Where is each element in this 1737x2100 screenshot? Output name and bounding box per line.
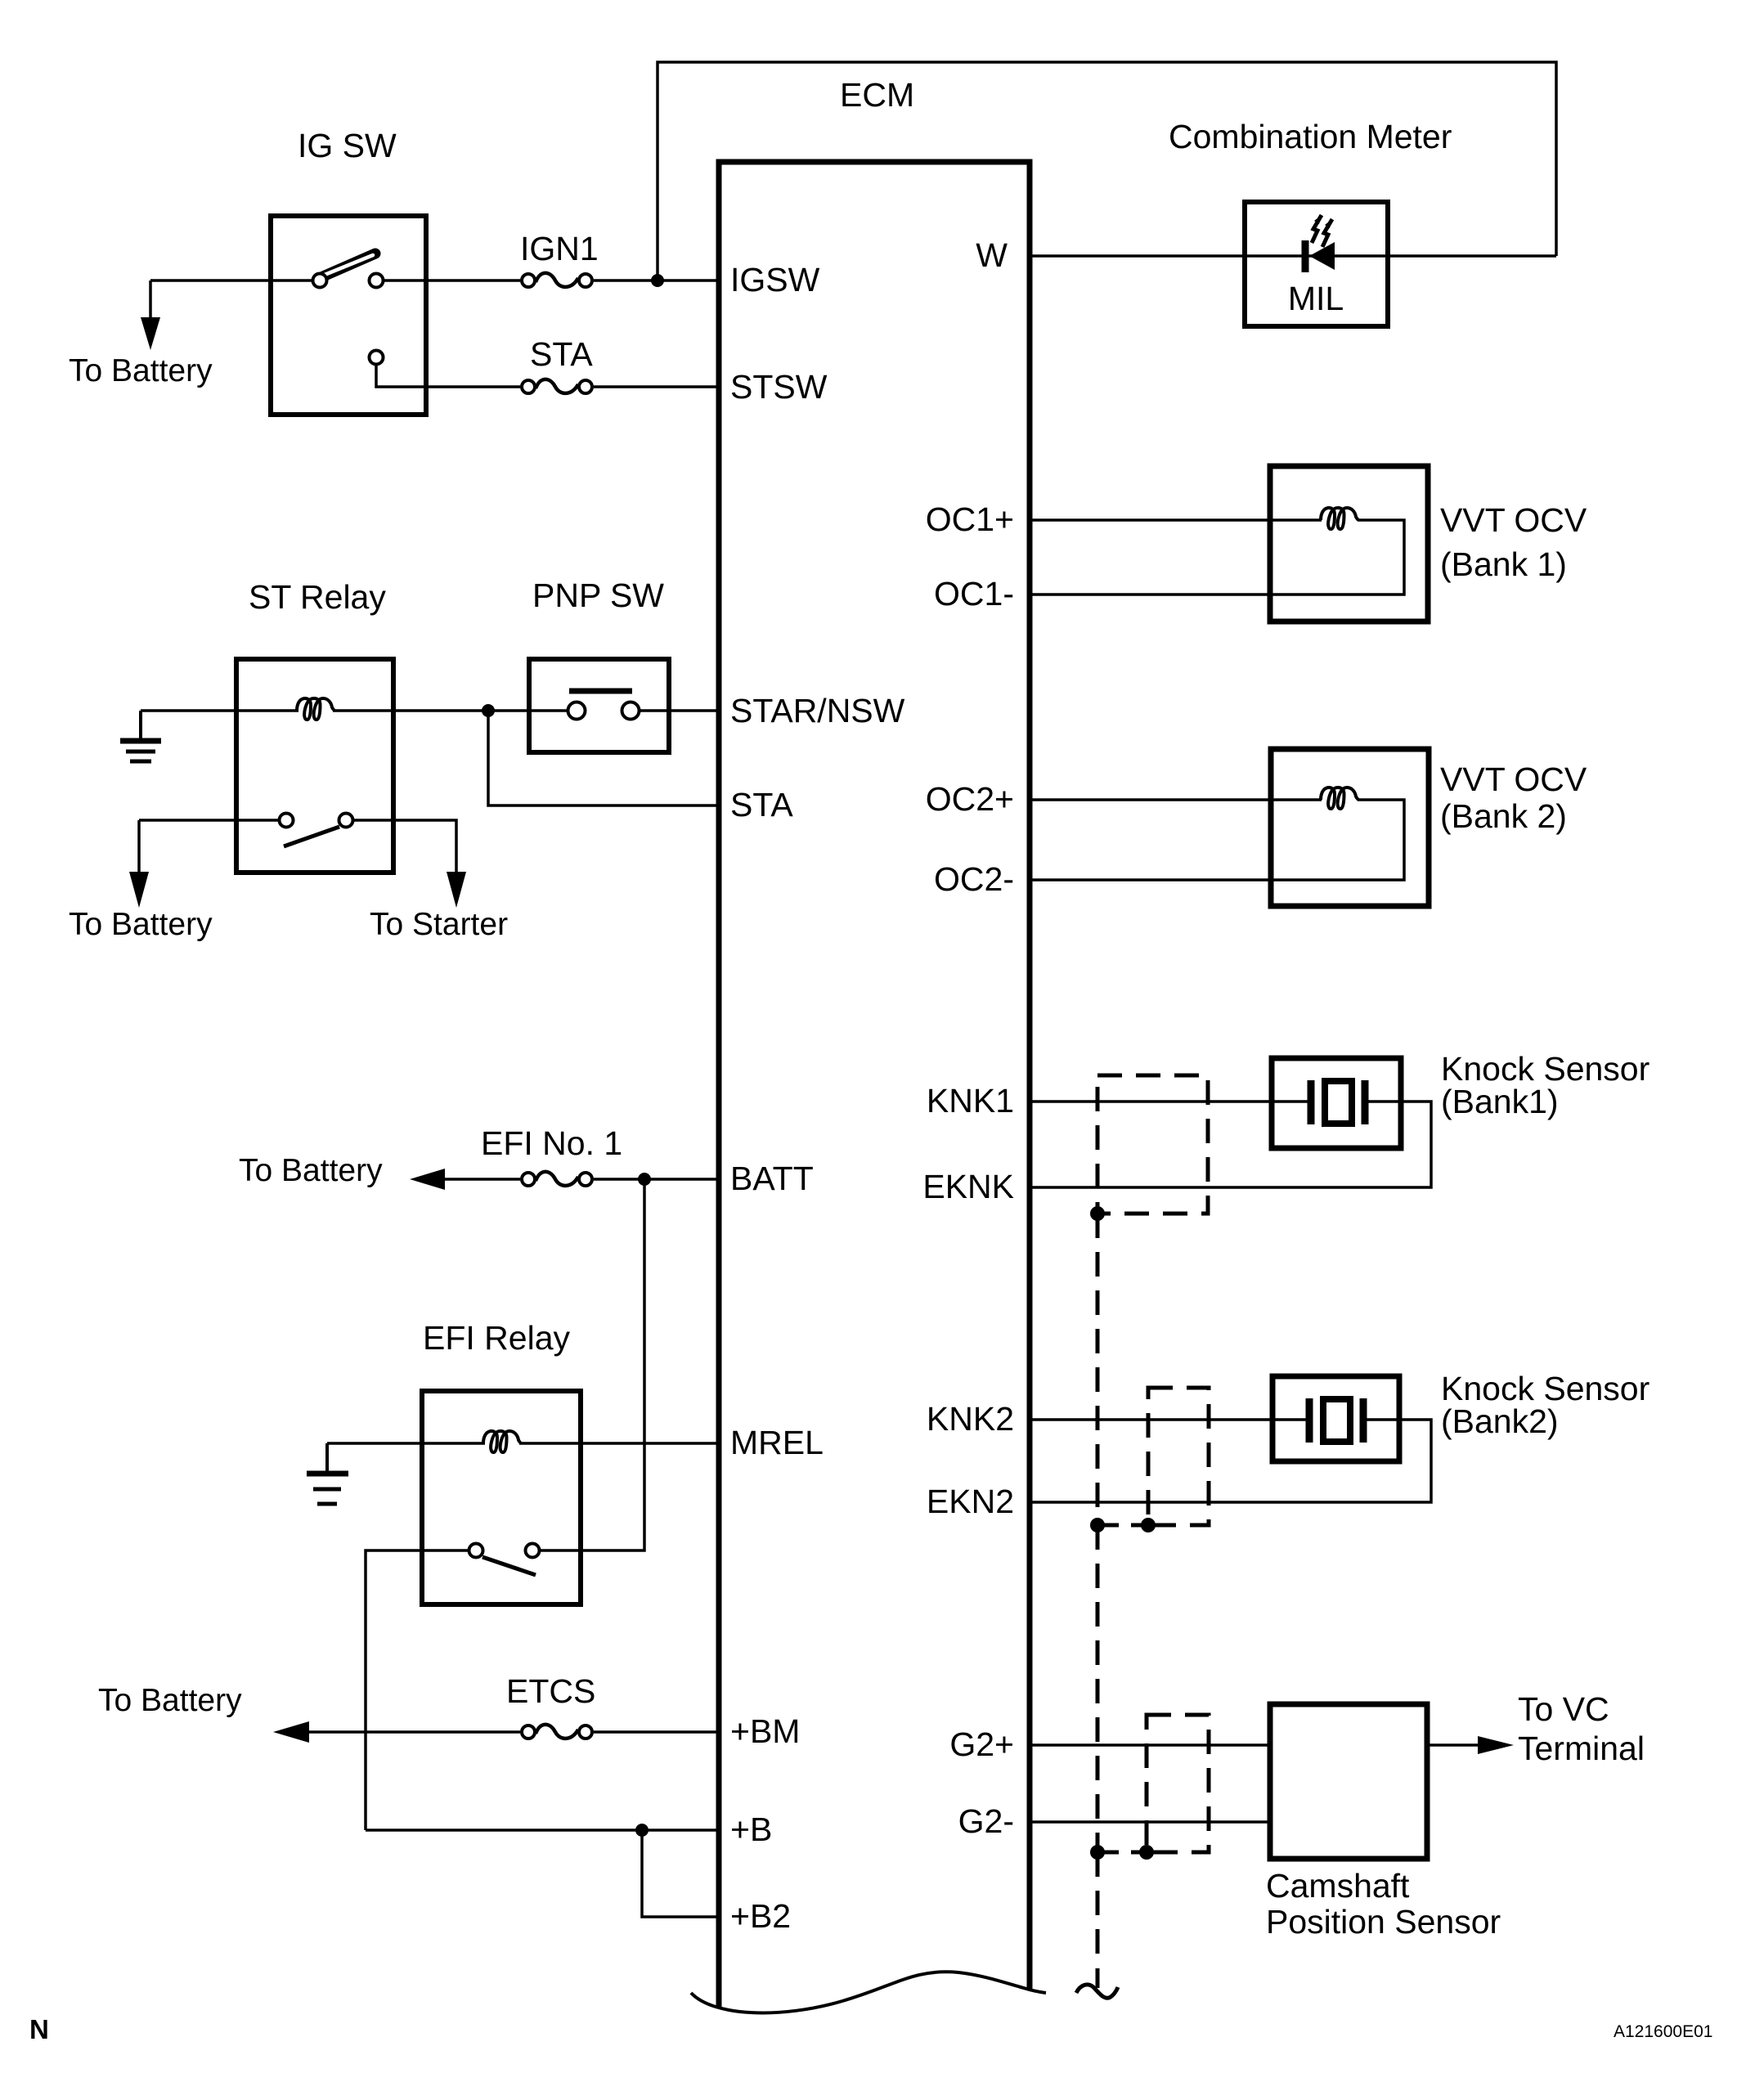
svg-text:STA: STA (530, 335, 593, 373)
svg-text:Terminal: Terminal (1518, 1730, 1645, 1767)
svg-text:IGSW: IGSW (730, 261, 820, 298)
svg-text:EKNK: EKNK (922, 1168, 1014, 1205)
shield G2 dashed (1147, 1715, 1209, 1852)
wire +BM to ECM (594, 1730, 719, 1734)
svg-text:EFI Relay: EFI Relay (423, 1319, 570, 1357)
wire coil to junction (333, 709, 488, 712)
ST Relay box (236, 659, 393, 873)
node +B junction (635, 1824, 649, 1837)
Camshaft Position Sensor box (1270, 1704, 1427, 1859)
wire switch left (139, 819, 278, 822)
svg-text:STA: STA (730, 786, 793, 823)
wire BATT fuse left + arrow (443, 1178, 520, 1181)
ground (EFI relay) (307, 1443, 348, 1504)
wire KNK1 (1030, 1100, 1308, 1103)
wire IGN1 to ECM (594, 279, 719, 282)
svg-text:To Starter: To Starter (370, 907, 508, 942)
wire +B2 (642, 1830, 719, 1917)
wire OC1+ (1030, 518, 1322, 522)
node STA junction (482, 704, 495, 717)
IG SW box (271, 216, 426, 415)
fuse STA (522, 379, 592, 393)
wire to battery (IGSW) (150, 279, 312, 282)
wire switch to +B riser (366, 1550, 468, 1830)
svg-text:ST Relay: ST Relay (249, 578, 386, 616)
fuse ETCS (522, 1725, 592, 1739)
wire PNP to ECM (640, 709, 719, 712)
coil VVT1 (1321, 508, 1358, 529)
svg-text:Position Sensor: Position Sensor (1266, 1903, 1501, 1941)
svg-text:To Battery: To Battery (69, 353, 213, 388)
PNP SW box (529, 659, 669, 752)
wire G2+ (1030, 1743, 1270, 1747)
wire +B (366, 1829, 719, 1832)
svg-text:(Bank1): (Bank1) (1441, 1083, 1559, 1120)
VVT OCV Bank2 box (1271, 749, 1429, 906)
node shield KNK1 drain (1090, 1206, 1105, 1221)
svg-text:G2+: G2+ (949, 1725, 1014, 1763)
coil VVT2 (1321, 787, 1358, 809)
node shield G2 joint A (1090, 1845, 1105, 1860)
relay switch ST (280, 814, 294, 828)
svg-text:IG SW: IG SW (298, 127, 397, 164)
wire KS2 return (1030, 1420, 1431, 1502)
relay coil ST (297, 698, 334, 720)
shield drain break tilde (1076, 1985, 1118, 1998)
wire BATT down to relay switch (541, 1179, 644, 1550)
wire BATT to ECM (594, 1178, 719, 1181)
wire MREL left (327, 1442, 485, 1445)
svg-text:STSW: STSW (730, 368, 828, 406)
switch IG contacts (313, 274, 327, 288)
svg-text:A121600E01: A121600E01 (1614, 2022, 1712, 2041)
svg-text:VVT OCV: VVT OCV (1440, 761, 1587, 798)
svg-text:OC1-: OC1- (934, 575, 1014, 612)
svg-text:EFI No. 1: EFI No. 1 (481, 1124, 622, 1162)
svg-text:+B2: +B2 (730, 1897, 791, 1935)
svg-text:Camshaft: Camshaft (1266, 1867, 1410, 1905)
svg-text:ETCS: ETCS (506, 1672, 595, 1710)
ECM bottom break wavy (691, 1972, 1046, 2012)
wire KNK2 (1030, 1418, 1307, 1421)
arrow to battery (ST) (137, 820, 141, 873)
wire G2- (1030, 1820, 1270, 1824)
fuse IGN1 (522, 273, 592, 287)
relay switch EFI (469, 1544, 483, 1558)
crystal KS1 (1311, 1080, 1365, 1124)
wire +BM fuse left + arrow (307, 1730, 520, 1734)
svg-text:W: W (976, 236, 1008, 274)
shield drain dashed tail (1096, 1852, 1100, 1966)
svg-text:KNK2: KNK2 (927, 1400, 1014, 1438)
contact ST (lower) (370, 351, 384, 365)
svg-text:To Battery: To Battery (69, 907, 213, 942)
svg-text:To VC: To VC (1518, 1690, 1609, 1728)
Knock Sensor 1 box (1272, 1058, 1401, 1148)
wire OC2+ (1030, 798, 1322, 801)
wire junction to PNP (488, 709, 568, 712)
svg-text:EKN2: EKN2 (927, 1483, 1014, 1520)
svg-text:To Battery: To Battery (98, 1683, 242, 1718)
LED MIL (1305, 215, 1335, 272)
svg-text:OC2+: OC2+ (926, 780, 1014, 818)
shield KNK1 dashed (1097, 1075, 1208, 1214)
svg-text:G2-: G2- (958, 1802, 1014, 1840)
svg-text:VVT OCV: VVT OCV (1440, 501, 1587, 539)
wire ground to coil (141, 709, 298, 712)
VVT OCV Bank1 box (1270, 466, 1428, 621)
svg-text:N: N (29, 2014, 49, 2044)
node shield joint B (1141, 1518, 1156, 1532)
relay coil EFI (483, 1431, 521, 1452)
wire STA to ECM (488, 711, 719, 805)
arrow to starter (447, 872, 466, 908)
svg-text:(Bank 2): (Bank 2) (1440, 797, 1567, 835)
svg-text:KNK1: KNK1 (927, 1082, 1014, 1120)
wire W net loop (658, 62, 1556, 280)
node IGN1/IGSW junction (651, 274, 664, 287)
ground (ST relay) (120, 711, 161, 761)
svg-text:+B: +B (730, 1811, 772, 1848)
wire OC2 inner loop (1030, 800, 1404, 880)
node shield G2 joint B (1139, 1845, 1154, 1860)
svg-text:ECM: ECM (840, 76, 914, 114)
shield drain dashed down 2 (1096, 1525, 1100, 1852)
wire STSW stub (376, 366, 520, 387)
shield drain dashed down (1096, 1214, 1100, 1525)
shield KNK2 dashed (1148, 1388, 1209, 1525)
switch IG lever (323, 254, 375, 276)
crystal KS2 (1309, 1398, 1363, 1443)
node BATT junction (638, 1173, 651, 1186)
svg-text:OC1+: OC1+ (926, 500, 1014, 538)
ECM box (719, 162, 1030, 2008)
wire KS1 return (1030, 1102, 1431, 1187)
wire IGSW to fuse (384, 279, 520, 282)
fuse EFI No.1 (522, 1172, 592, 1186)
svg-text:(Bank 1): (Bank 1) (1440, 545, 1567, 583)
EFI Relay box (422, 1391, 581, 1604)
shield KNK2 bottom link (1097, 1523, 1148, 1528)
wire switch right (354, 820, 456, 873)
PNP contacts (568, 702, 586, 720)
wire MREL right (519, 1442, 719, 1445)
arrow to battery (149, 280, 152, 319)
PNP bar (569, 689, 632, 694)
svg-text:IGN1: IGN1 (520, 230, 599, 267)
svg-text:MIL: MIL (1288, 280, 1344, 317)
svg-text:OC2-: OC2- (934, 860, 1014, 898)
MIL box (1245, 202, 1388, 326)
svg-text:BATT: BATT (730, 1160, 814, 1197)
svg-text:PNP SW: PNP SW (532, 577, 664, 614)
svg-text:Combination Meter: Combination Meter (1169, 118, 1452, 155)
wire OC1 inner loop (1030, 520, 1404, 595)
svg-text:To Battery: To Battery (239, 1153, 383, 1188)
arrow to VC terminal (1427, 1743, 1479, 1747)
svg-text:STAR/NSW: STAR/NSW (730, 692, 905, 729)
Knock Sensor 2 box (1272, 1376, 1399, 1461)
svg-text:MREL: MREL (730, 1424, 824, 1461)
wire STA fuse to ECM (594, 385, 719, 388)
node shield joint A (1090, 1518, 1105, 1532)
shield G2 bottom link (1097, 1851, 1147, 1855)
svg-text:(Bank2): (Bank2) (1441, 1402, 1559, 1440)
svg-text:+BM: +BM (730, 1712, 800, 1750)
